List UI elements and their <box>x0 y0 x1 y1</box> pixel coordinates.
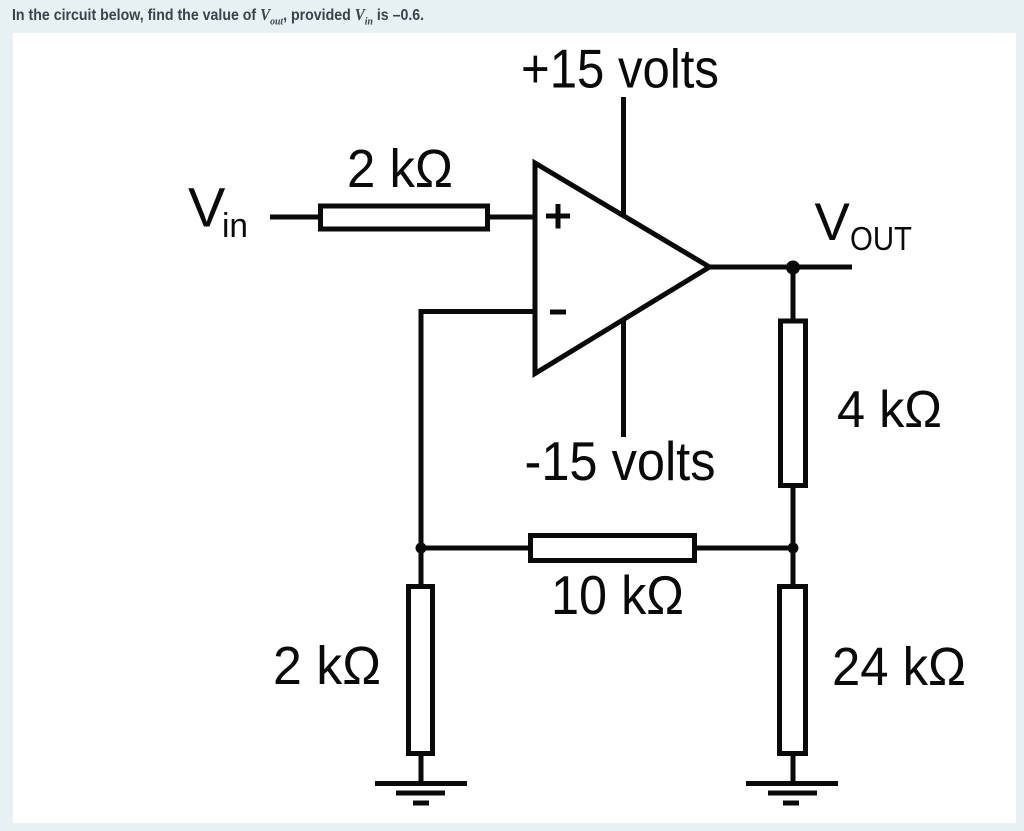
resistor R3 2k body <box>409 587 433 754</box>
output node junction dot <box>786 261 800 275</box>
svg-text:2 kΩ: 2 kΩ <box>347 139 453 199</box>
op-amp + pin mark <box>546 204 570 229</box>
svg-text:10 kΩ: 10 kΩ <box>551 564 684 626</box>
wire node A down to R3 <box>419 548 424 589</box>
svg-text:24 kΩ: 24 kΩ <box>832 637 966 697</box>
resistor R1 2k body <box>321 206 488 229</box>
svg-text:-15 volts: -15 volts <box>525 430 716 492</box>
ground 1 <box>375 784 467 804</box>
wire Vin to R1 <box>270 215 321 220</box>
svg-text:V: V <box>815 193 851 252</box>
wire -15V supply <box>621 317 626 437</box>
wire op-amp output <box>706 265 852 270</box>
svg-text:V: V <box>188 176 226 239</box>
svg-text:2 kΩ: 2 kΩ <box>273 636 381 696</box>
node A junction dot <box>416 543 427 554</box>
wire R1 to op-amp + input <box>488 215 533 220</box>
wire output node down to R2 <box>791 267 796 324</box>
wire R2 bottom to node B <box>791 484 796 548</box>
svg-text:+15 volts: +15 volts <box>521 38 719 100</box>
resistor R2 4k body <box>781 321 806 486</box>
wire node B down to R5 <box>791 548 796 589</box>
wire inverting input <box>421 309 533 314</box>
svg-text:OUT: OUT <box>850 221 912 258</box>
wire R5 to ground 2 <box>791 753 796 783</box>
resistor R4 10k body <box>531 536 695 561</box>
ground 2 <box>746 784 838 804</box>
node B junction dot <box>788 543 799 554</box>
svg-text:4 kΩ: 4 kΩ <box>837 381 942 439</box>
wire R3 to ground 1 <box>419 753 424 783</box>
svg-text:in: in <box>222 207 248 245</box>
op-amp - pin mark <box>550 310 566 315</box>
wire feedback vertical <box>419 309 424 548</box>
wire node A to R4 <box>419 546 532 551</box>
wire +15V supply <box>621 97 626 218</box>
wire R4 to node B <box>694 546 795 551</box>
question text strip <box>12 5 424 27</box>
op-amp U1 <box>535 163 710 374</box>
resistor R5 24k body <box>780 587 806 754</box>
